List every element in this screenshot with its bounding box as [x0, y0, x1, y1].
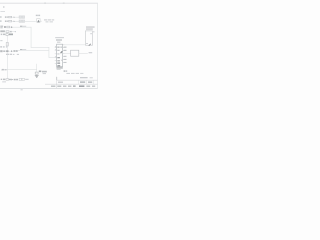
capacitor C1 [6, 34, 8, 36]
U1 left pin 4 [55, 56, 57, 59]
value text line2 b [10, 54, 12, 55]
net name text N2 [20, 49, 23, 50]
connector J2 pin dot [88, 43, 90, 46]
node IN2 label [5, 21, 6, 22]
net label box A2 [22, 16, 25, 18]
U1 left pin 5 [55, 59, 57, 62]
title bottom text f dark [79, 85, 84, 87]
page tick below border [21, 89, 23, 90]
U1 right pin label b [64, 47, 67, 48]
net label text B1 [20, 20, 22, 23]
net stub box2 below U1 [66, 70, 68, 72]
node IN2 label2 [7, 21, 8, 22]
resistor R2 [9, 20, 12, 22]
IC U1 note line [55, 37, 64, 38]
value text row [14, 79, 16, 81]
filter FL1 [71, 50, 79, 56]
U1 pin text right r1 [60, 47, 62, 48]
component K1 [3, 46, 5, 47]
U1 pin number n2 [55, 48, 56, 51]
sheet top border [0, 2, 98, 5]
title block mid line [45, 83, 98, 86]
node IN5 label [1, 34, 3, 36]
arrow port P5 [11, 79, 13, 81]
U1 left pin 3 [55, 53, 57, 56]
net label text A1 [20, 16, 22, 19]
wire [10, 26, 11, 29]
wire [15, 20, 19, 23]
U1 right pin b [63, 46, 65, 49]
title block top line [57, 79, 98, 82]
note text row seg2 [71, 73, 75, 74]
note text below [2, 81, 6, 82]
title text cell3 [88, 81, 92, 83]
title block outline left [56, 80, 59, 88]
resistor R5 vertical [6, 42, 8, 46]
node IN6 label [0, 46, 2, 48]
note text row seg3 [76, 73, 79, 74]
net label box B1 [19, 20, 22, 22]
wire U1 to J2 [65, 44, 86, 47]
title block divider v1 [77, 80, 79, 84]
net label text B2 [23, 20, 25, 23]
wire FL1 out [79, 52, 88, 55]
ferrite bead FB1 [4, 26, 6, 28]
title block divider v3 [92, 80, 94, 84]
U1 pin name r7 dark [57, 65, 60, 66]
U1 left pin 6 [55, 63, 57, 66]
U1 right pin e [63, 55, 65, 58]
wire vertical chain [6, 35, 9, 50]
wire vertical to Y1 [35, 64, 38, 72]
connector J2 top-right dash [93, 31, 94, 32]
IC U1 part number [56, 39, 62, 40]
U1 pin name text row1 [57, 47, 59, 48]
value text Y1b [42, 71, 47, 73]
U1 bottom text line2 [57, 68, 61, 71]
U1 right pin label f [64, 59, 67, 60]
node IN1 label [5, 16, 6, 17]
U1 logo dark [60, 51, 63, 53]
diode D1 [10, 31, 12, 32]
U1 right pin g [63, 61, 65, 64]
note text mid b [48, 19, 51, 20]
title bottom text h [92, 86, 95, 87]
title bottom text c [63, 86, 66, 87]
arrow port P1 [14, 17, 15, 18]
node IN1 label2 [7, 16, 8, 17]
wire [12, 20, 14, 23]
U1 pin name text row2 [57, 50, 59, 51]
title text cell1 [58, 82, 63, 84]
node IN3 label [0, 26, 3, 27]
title block text above b [90, 77, 93, 78]
U1 pin name text row4 [57, 57, 60, 58]
ground GND1 [35, 76, 39, 78]
U1 right pin f [63, 58, 65, 61]
title bottom text a [51, 86, 55, 87]
U1 pin number n4 [55, 55, 56, 58]
wire U1 to FL1 [65, 52, 71, 55]
note text row seg4 [80, 73, 83, 74]
node IN7 label [0, 50, 2, 52]
node X label [2, 69, 4, 71]
title bottom text d [68, 86, 71, 87]
sheet bottom border [0, 87, 98, 90]
IC U1 refdes [57, 42, 60, 43]
node IN8 stub [1, 79, 2, 80]
wire [7, 69, 37, 72]
node IN2 stub [0, 20, 2, 22]
antenna E1 base [37, 21, 39, 24]
wire [12, 16, 14, 19]
arrow port P4 [11, 50, 13, 52]
diode D3 [9, 79, 11, 80]
title bottom text b [57, 86, 61, 87]
note text mid d [46, 21, 49, 22]
antenna E1 core [37, 20, 39, 22]
capacitor C2 [3, 50, 5, 52]
wire [18, 49, 49, 52]
node IN8 label [3, 79, 5, 81]
capacitor C3 [4, 69, 6, 70]
antenna E1 outline [37, 19, 40, 23]
wire vertical chain lower [6, 52, 9, 78]
U1 pin number n1 [55, 45, 56, 48]
component K1b [6, 46, 8, 47]
resistor R3 [7, 26, 10, 28]
net text FL1 out [89, 52, 93, 53]
value text line2 a [6, 54, 9, 55]
net text chain [0, 40, 2, 41]
note text row seg1 [66, 73, 70, 74]
net label box A1 [19, 16, 22, 18]
resistor R1 [9, 16, 12, 18]
U1 left pin 2 [55, 49, 57, 52]
wire to U1 pin [31, 46, 49, 49]
sheet border tick 1 [44, 2, 46, 5]
resistor R6 [6, 79, 9, 81]
connector J2 inner pin dash [90, 33, 92, 34]
title block text above [80, 77, 88, 78]
wire to U1 pin [49, 56, 55, 59]
net label box E2 [22, 78, 24, 80]
sheet border tick 2 [63, 2, 65, 5]
row8 extra text [25, 79, 28, 80]
value text row2 [16, 79, 18, 81]
net label text A2 [23, 16, 25, 19]
value text [13, 50, 15, 52]
crystal Y1 [35, 72, 38, 74]
U1 right pin c [63, 49, 65, 52]
U1 pin name r5 [57, 60, 60, 61]
connector J2 body [85, 31, 92, 45]
title bottom text g [86, 86, 90, 87]
wire vertical [30, 27, 33, 48]
net name text N1b [23, 25, 26, 28]
U1 left pin 1 [55, 46, 57, 49]
U1 pin name text row3 [57, 53, 59, 54]
node IN3 label line2 [0, 27, 2, 28]
connector J2 label line1 [86, 26, 95, 27]
wire vertical [48, 47, 51, 58]
wire [12, 30, 15, 33]
wire [9, 50, 12, 53]
note text mid c [52, 19, 55, 20]
wire stub right [40, 20, 42, 23]
arrow port P3 [11, 26, 13, 28]
diode D2 [6, 50, 8, 52]
wire [15, 16, 19, 19]
net name text N2b [23, 48, 26, 51]
resistor R4 [6, 31, 9, 33]
net name text N1 [20, 26, 23, 27]
title block left stub [55, 77, 58, 80]
U1 pin name r6 dark [57, 63, 60, 64]
value text line2 c [13, 54, 15, 55]
value text line2 d [17, 54, 19, 55]
wire below Y1 [35, 74, 38, 75]
net label box E1 [19, 78, 21, 80]
U1 right pin label e [64, 56, 67, 57]
net label box B2 [22, 20, 25, 22]
wire end tick [15, 31, 16, 32]
revision mark [3, 6, 5, 7]
antenna E1 label2 [38, 15, 40, 16]
value text Y1c [43, 73, 46, 74]
net stub box1 below U1 [64, 70, 66, 72]
title text cell2 [80, 81, 85, 83]
U1 bottom text [56, 67, 62, 68]
node IN4 label [0, 30, 5, 32]
wire [13, 26, 32, 29]
value text2 [16, 50, 18, 52]
IC U1 body [57, 44, 63, 66]
value text Y1 [39, 71, 42, 73]
node IN1 stub [0, 16, 2, 18]
U1 right pin a [63, 44, 65, 47]
note text top-left [0, 10, 5, 13]
value text C1 [9, 34, 13, 36]
U1 right pin label c [64, 50, 67, 51]
wire XTAL net [0, 69, 3, 72]
U1 right pin label g [64, 62, 67, 63]
U1 right pin d [63, 52, 65, 55]
title block divider v2 [85, 80, 87, 84]
connector J2 label line2 [86, 28, 93, 29]
title bottom text e dark [73, 85, 76, 87]
note text mid a [44, 19, 47, 20]
sheet right border [96, 3, 99, 89]
arrow port P2 [14, 21, 15, 22]
U1 right inner dash [61, 60, 62, 61]
wire [25, 20, 36, 23]
antenna E1 label [36, 15, 38, 16]
node IN5 label2 [3, 34, 5, 36]
connector J2 inner pin dash2 [86, 43, 88, 44]
note text mid e [50, 21, 53, 22]
